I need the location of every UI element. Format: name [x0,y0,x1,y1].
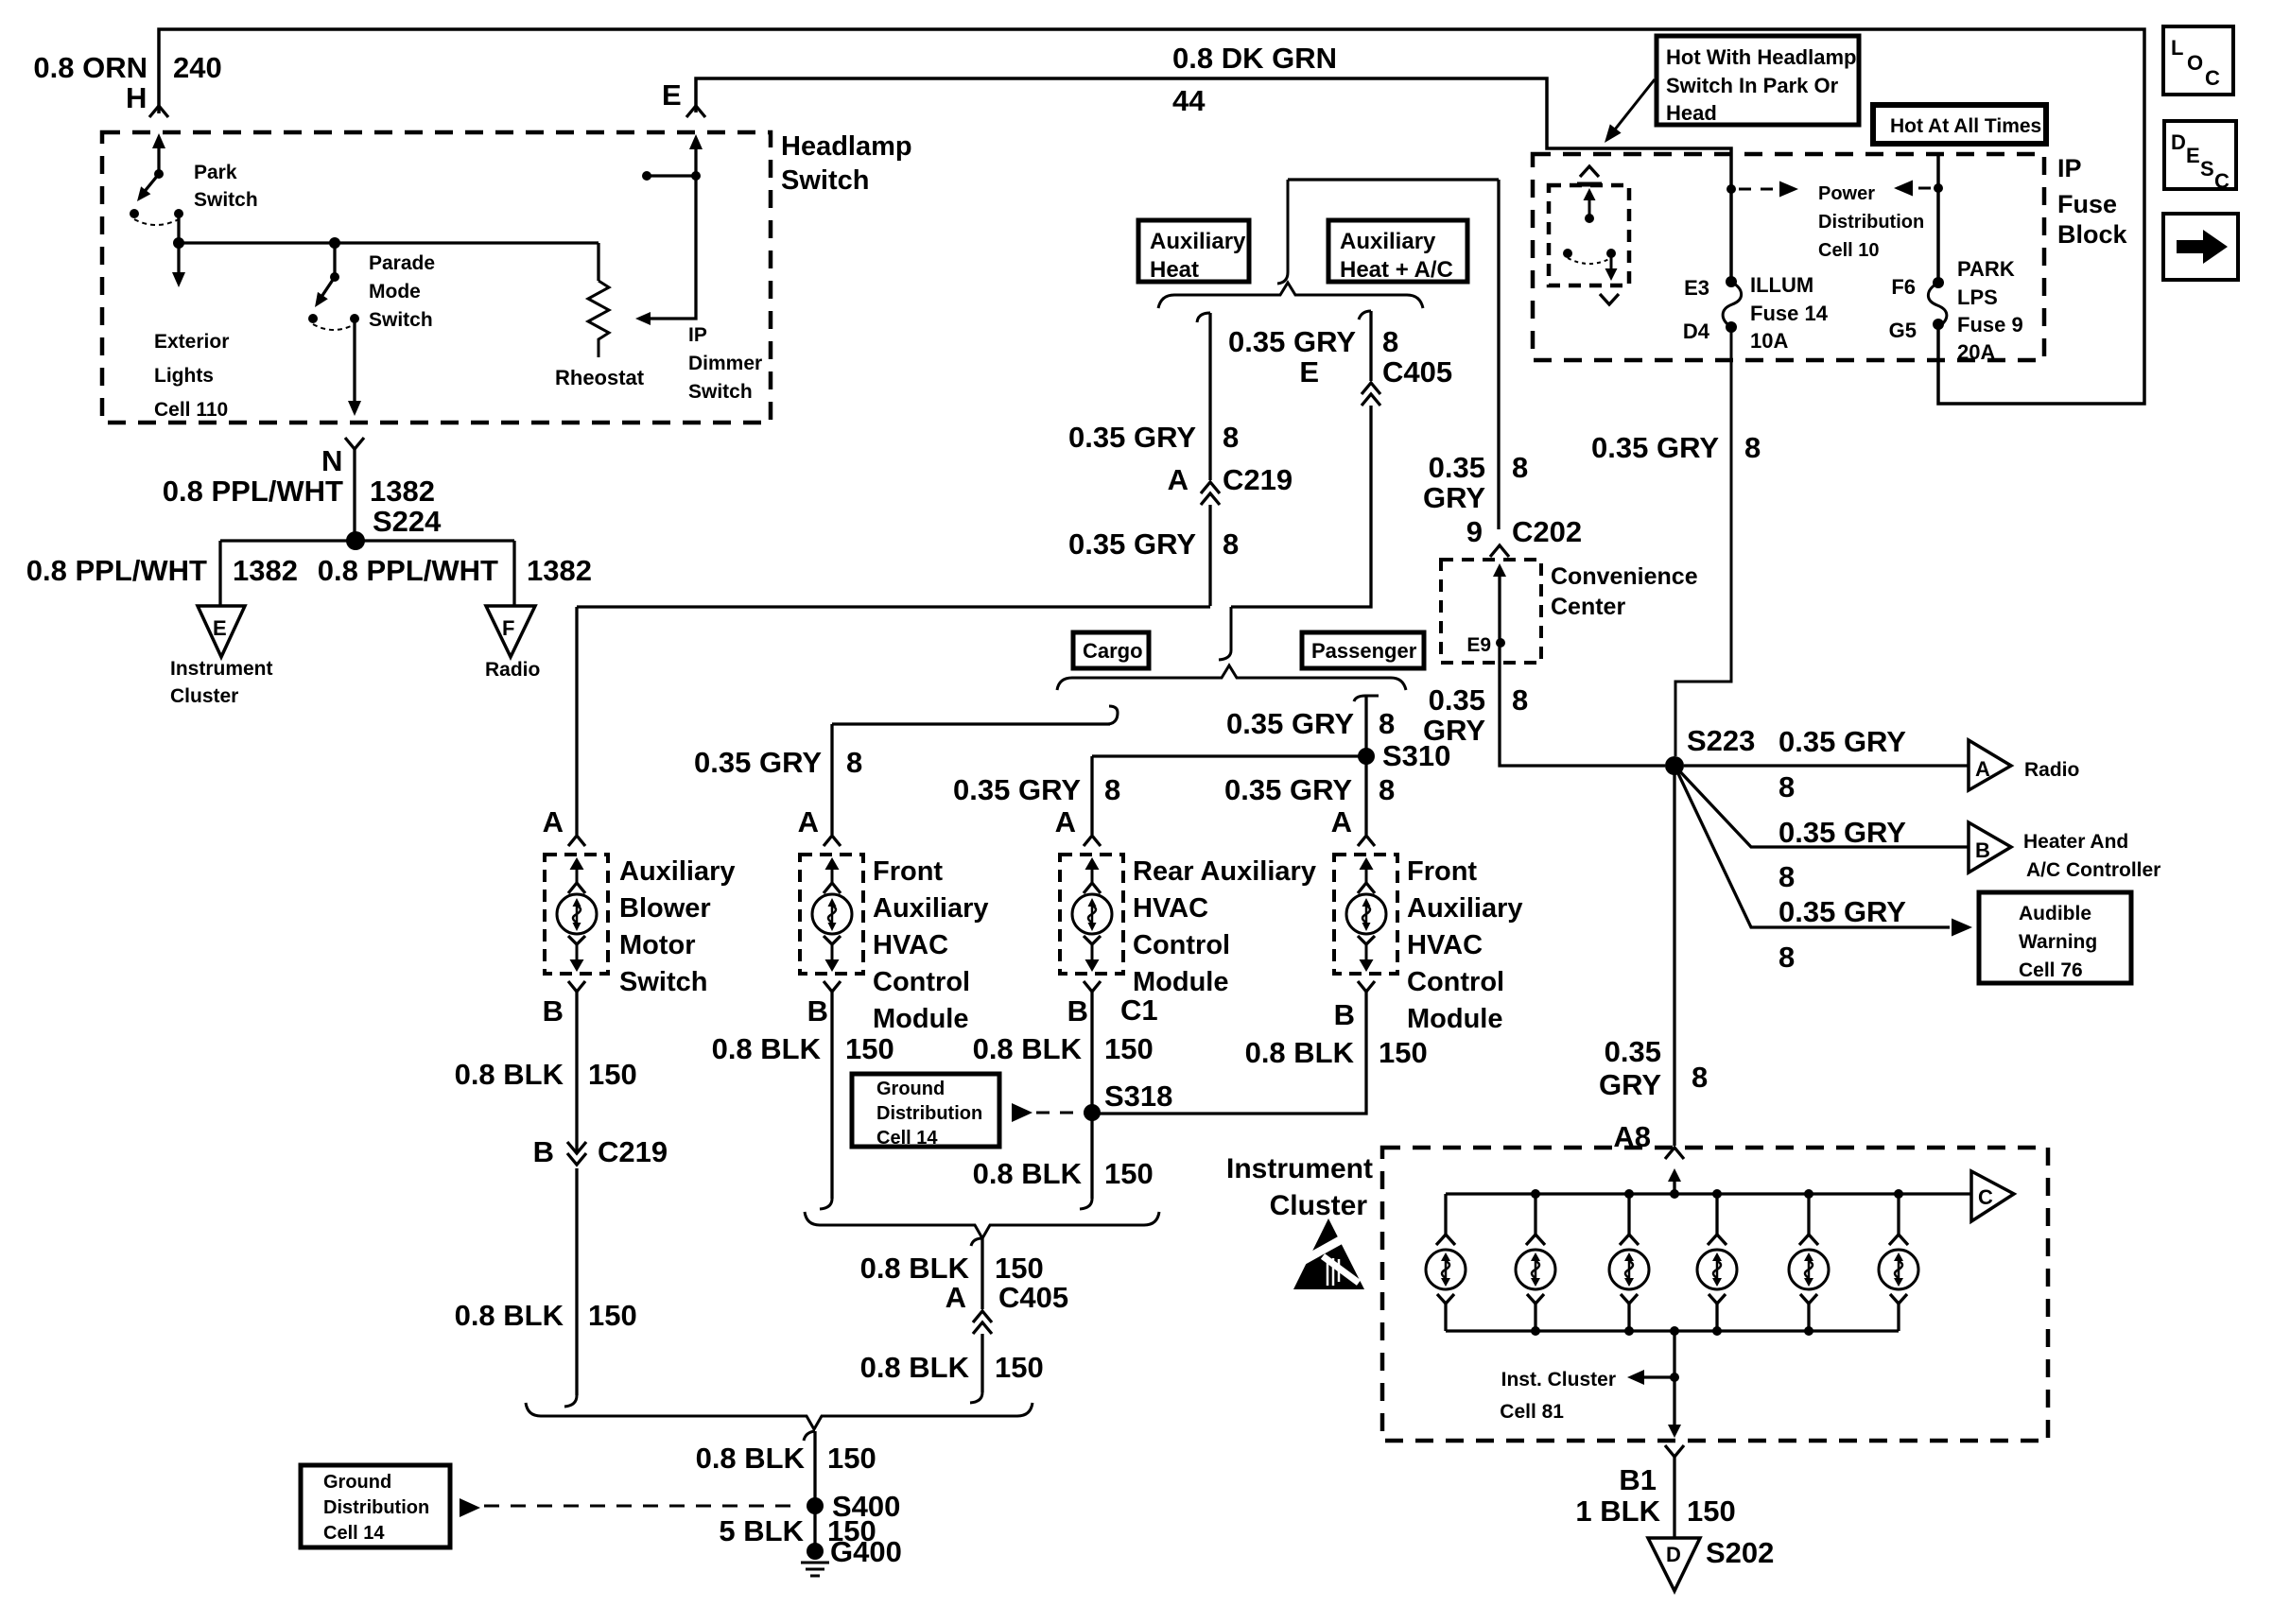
off-page connector C [1971,1171,2014,1221]
switch down arrow [1605,268,1618,281]
switch down chevron [1600,294,1619,304]
wire module4 B to S318 [1092,992,1366,1114]
svg-text:O: O [2187,51,2203,75]
connector B chevron x=1155 [1084,981,1101,992]
svg-text:Ground: Ground [876,1079,945,1099]
svg-text:Convenience: Convenience [1551,563,1698,590]
svg-text:F6: F6 [1891,275,1916,299]
connector half at N [345,438,364,449]
svg-text:Ground: Ground [323,1472,391,1493]
wire below C219 [1208,505,1211,606]
parade switch blade [320,277,335,300]
svg-text:Hot With Headlamp: Hot With Headlamp [1666,45,1856,69]
dashed from F6 (right) [1897,187,1931,190]
wire end curl module2 [820,1199,832,1209]
svg-text:C202: C202 [1512,515,1582,548]
svg-text:150: 150 [588,1299,637,1332]
cluster top bus [1446,1192,1971,1195]
parade contact left [308,314,318,323]
connector B1 symbol [1665,1445,1684,1457]
arrow to S400 [460,1498,480,1517]
off-page connector A to Radio [1969,740,2011,790]
svg-text:1382: 1382 [370,475,435,508]
svg-text:C: C [2205,66,2220,90]
park switch blade arrowhead [137,186,150,201]
svg-text:C: C [2214,169,2230,193]
svg-text:8: 8 [846,746,862,779]
svg-text:Fuse 9: Fuse 9 [1957,313,2023,337]
svg-text:Audible: Audible [2019,903,2091,924]
wire S310 left [1092,754,1366,757]
off-page connector B to Heater And A/C Controller [1969,822,2011,872]
switch travel arc [1568,258,1611,264]
svg-text:Module: Module [873,1004,969,1034]
arrow at cluster exit [1668,1425,1681,1438]
svg-text:20A: 20A [1957,340,1995,364]
fuse terminal F6 [1933,277,1944,288]
svg-text:Headlamp: Headlamp [781,131,912,162]
svg-text:A: A [1168,463,1189,496]
svg-text:B: B [1067,994,1088,1028]
svg-text:Fuse 14: Fuse 14 [1750,302,1829,325]
svg-text:0.35 GRY: 0.35 GRY [1068,421,1196,454]
switch up arrow [1584,188,1596,200]
svg-text:10A: 10A [1750,329,1788,353]
connector C202 symbol [1490,545,1509,557]
connector half at E [686,106,705,117]
svg-text:Control: Control [873,967,970,997]
svg-text:Control: Control [1407,967,1504,997]
svg-text:1382: 1382 [233,554,298,587]
Convenience Center dashed box [1441,560,1541,663]
svg-text:Switch In Park Or: Switch In Park Or [1666,74,1839,97]
splice S310 [1358,748,1375,765]
hook left brace wire [1197,313,1210,322]
connector half at H [149,106,168,117]
svg-text:0.35 GRY: 0.35 GRY [1068,527,1196,561]
svg-text:IP: IP [688,324,707,346]
svg-text:Parade: Parade [369,252,435,274]
svg-text:8: 8 [1379,773,1395,806]
wire S224 horizontal [220,539,514,542]
switch down arrow stem [1610,255,1613,272]
next-page arrow box [2163,214,2238,280]
svg-text:0.8 PPL/WHT: 0.8 PPL/WHT [318,554,498,587]
svg-text:0.35 GRY: 0.35 GRY [953,773,1081,806]
off-page connector E to Instrument Cluster [198,606,245,657]
bus dot bottom x=1624 [1531,1326,1540,1336]
svg-text:0.35 GRY: 0.35 GRY [1224,773,1352,806]
svg-text:150: 150 [1104,1157,1154,1190]
junction parade switch tap [329,237,340,249]
wire 0.35 GRY to C405-E [1369,311,1372,381]
svg-text:5 BLK: 5 BLK [719,1514,804,1547]
svg-text:0.8 PPL/WHT: 0.8 PPL/WHT [163,475,343,508]
switch contact right (head) [1606,249,1616,258]
svg-text:S223: S223 [1687,724,1755,757]
svg-text:0.8 BLK: 0.8 BLK [973,1157,1083,1190]
A8 stub wire [1673,1177,1675,1194]
wire C405 down to cargo link [1231,406,1371,607]
svg-text:A: A [1055,805,1076,838]
svg-text:0.35 GRY: 0.35 GRY [1778,725,1906,758]
svg-text:8: 8 [1382,325,1398,358]
svg-text:Auxiliary: Auxiliary [1407,893,1523,924]
arrow into Power Distribution [1779,181,1798,198]
switch top bar [1577,182,1602,187]
svg-text:E: E [662,78,682,112]
svg-text:8: 8 [1223,527,1239,561]
svg-text:8: 8 [1512,451,1528,484]
svg-text:Cell 10: Cell 10 [1818,240,1879,261]
arrow at N exit [348,401,361,416]
park switch pivot [154,169,164,179]
wire module2 B down [830,992,833,1199]
svg-text:Auxiliary: Auxiliary [619,856,736,887]
svg-text:F: F [502,616,514,640]
switch contact left (park) [1563,249,1572,258]
parade contact right [350,314,359,323]
svg-text:Module: Module [1407,1004,1503,1034]
svg-text:N: N [321,444,342,477]
wire cargo link horizontal [832,722,1110,725]
wire S223 down to A8 [1673,766,1675,1146]
svg-text:Cluster: Cluster [1270,1190,1368,1221]
fuse terminal G5 [1933,319,1944,330]
leader arrowhead [1605,124,1622,143]
wire module1 B down [575,992,578,1153]
wire B1 to S202 [1673,1457,1675,1538]
connector A chevron x=610 [568,836,585,846]
svg-text:Front: Front [873,856,943,887]
off-page connector F to Radio [486,606,535,657]
arrow to S318 [1012,1103,1032,1122]
wire S223 to Heater B [1674,766,1969,847]
IP fuse block dashed box [1533,154,2044,360]
svg-text:Dimmer: Dimmer [688,353,762,374]
svg-text:GRY: GRY [1599,1068,1661,1101]
wire to rheostat [597,243,599,281]
next-page arrow glyph [2177,230,2228,264]
svg-text:9: 9 [1466,515,1483,548]
wire passenger hook to S310 [1364,696,1367,756]
svg-text:0.35 GRY: 0.35 GRY [1591,431,1719,464]
svg-text:150: 150 [588,1058,637,1091]
svg-text:D: D [2171,130,2186,154]
svg-text:H: H [126,81,147,114]
wire park contact down [177,214,180,243]
svg-text:Switch: Switch [688,381,753,403]
svg-text:C219: C219 [598,1135,668,1168]
svg-text:Front: Front [1407,856,1477,887]
wire to parade pivot [333,243,336,277]
wire 0.35 GRY from D4 to S223 [1675,327,1731,756]
svg-text:8: 8 [1744,431,1761,464]
svg-text:A: A [798,805,819,838]
hook passenger side [1354,696,1379,701]
connector B chevron x=1445 [1358,981,1375,992]
bus dot bottom x=1816 [1712,1326,1722,1336]
svg-text:E: E [213,616,227,640]
svg-text:0.35: 0.35 [1429,683,1485,717]
parade switch pivot [330,272,339,282]
arrow into Audible Warning box [1952,919,1972,937]
arrow into Power Distribution from right [1894,181,1913,197]
connector C219 lower symbol [567,1153,586,1165]
bus dot top x=1723 [1624,1189,1634,1199]
svg-text:A/C Controller: A/C Controller [2026,859,2160,881]
svg-text:Rear Auxiliary: Rear Auxiliary [1133,856,1316,887]
splice S400 [807,1497,824,1514]
svg-text:0.35 GRY: 0.35 GRY [1226,707,1354,740]
park switch contact right [174,209,183,218]
Passenger label box [1302,632,1424,668]
svg-text:8: 8 [1512,683,1528,717]
svg-text:Instrument: Instrument [1226,1153,1373,1184]
wire N to S224 [353,449,356,541]
wire end curl below C405-A [970,1392,982,1403]
parade blade arrowhead [315,292,328,307]
brace to S400 [526,1403,1032,1429]
svg-text:Radio: Radio [2024,759,2079,781]
svg-text:E9: E9 [1466,634,1491,656]
headlamp switch position dashed box [1549,185,1629,285]
svg-text:240: 240 [173,51,222,84]
wire drop to C202 [1497,180,1500,529]
wire to F triangle [512,541,515,606]
bus dot bottom x=1771 [1670,1326,1679,1336]
svg-text:B: B [807,994,828,1028]
svg-text:0.8 BLK: 0.8 BLK [860,1351,970,1384]
svg-text:D4: D4 [1683,320,1710,343]
tap dot on F6 wire [1934,183,1943,193]
ESD sensitive device symbol [1293,1218,1364,1289]
wire through E9 to S223 [1500,573,1665,766]
svg-text:Cell 76: Cell 76 [2019,959,2083,981]
wire S310 down to module4 A [1364,756,1367,835]
connector B chevron x=610 [568,981,585,992]
connector A chevron x=1155 [1084,836,1101,846]
svg-text:B: B [543,994,564,1028]
connector B chevron x=880 [824,981,841,992]
splice S318 [1084,1104,1101,1121]
svg-text:0.8 BLK: 0.8 BLK [696,1442,806,1475]
brace under Auxiliary Heat boxes [1158,283,1423,308]
connector C405 symbol [1362,383,1380,394]
svg-text:D: D [1666,1543,1681,1566]
bus dot top x=1771 [1670,1189,1679,1199]
svg-text:150: 150 [1687,1494,1736,1528]
svg-text:S318: S318 [1104,1080,1172,1113]
bus dot top x=1816 [1712,1189,1722,1199]
bus dot bottom x=1913 [1804,1326,1813,1336]
svg-text:150: 150 [995,1252,1044,1285]
svg-text:S202: S202 [1706,1536,1774,1569]
rear auxiliary HVAC control module lamp [1060,855,1123,974]
bus dot top x=2008 [1894,1189,1903,1199]
wire down to front aux HVAC A [830,724,833,835]
svg-text:8: 8 [1104,773,1120,806]
wire module3 B down through S318 [1090,992,1093,1199]
connector A8 symbol [1665,1148,1684,1159]
switch up arrow stem [1588,197,1591,216]
wire S223 to Audible Warning [1674,766,1950,927]
cluster ground wire down [1673,1331,1675,1433]
svg-text:Rheostat: Rheostat [555,366,645,389]
fuse PARK LPS element [1928,283,1947,327]
wire end hook above cargo brace [1219,607,1231,660]
svg-text:0.8 BLK: 0.8 BLK [1245,1036,1355,1069]
wire to exterior lights [177,243,180,280]
Ground Distribution Cell 14 box lower [301,1465,450,1547]
svg-text:Passenger: Passenger [1311,639,1417,663]
brace under Cargo/Passenger [1057,665,1406,690]
wire brace to G400 [813,1431,816,1551]
Audible Warning Cell 76 box [1979,892,2131,983]
IP dimmer wiper wire [641,145,696,319]
svg-text:150: 150 [827,1442,876,1475]
dimmer junction dot [691,171,701,181]
svg-text:0.35: 0.35 [1605,1035,1661,1068]
wire parade to N [353,319,356,406]
svg-text:A: A [1331,805,1352,838]
svg-text:S: S [2200,157,2214,181]
wire brace to C405-A [980,1238,983,1309]
svg-text:Cargo: Cargo [1083,639,1143,663]
arrow from A8 into cluster [1668,1168,1681,1182]
svg-text:C: C [1978,1185,1993,1209]
svg-text:GRY: GRY [1423,481,1485,514]
svg-text:G400: G400 [830,1535,902,1568]
svg-text:Fuse: Fuse [2057,190,2117,218]
svg-text:8: 8 [1223,421,1239,454]
svg-text:A: A [946,1281,966,1314]
svg-text:HVAC: HVAC [1133,893,1208,924]
dashed link to S318 [1036,1112,1085,1114]
svg-text:0.8 BLK: 0.8 BLK [973,1032,1083,1065]
svg-text:Switch: Switch [194,189,258,211]
svg-text:E: E [2186,144,2200,167]
svg-text:150: 150 [1379,1036,1428,1069]
brace gathering module grounds [805,1212,1159,1238]
dimmer stub [647,174,696,177]
inst cluster tap stub [1633,1375,1674,1378]
Instrument Cluster dashed box [1382,1148,2048,1441]
parade switch travel arc [313,324,355,330]
svg-text:Switch: Switch [619,967,707,997]
svg-text:HVAC: HVAC [1407,930,1483,960]
wire to parade switch and rheostat [179,241,599,244]
svg-text:Hot At All Times: Hot At All Times [1890,115,2041,137]
connector C219 symbol [1201,482,1220,493]
inst cluster tap dot [1670,1373,1679,1382]
svg-text:Center: Center [1551,594,1625,620]
front auxiliary HVAC control module lamp [800,855,863,974]
svg-text:Heat + A/C: Heat + A/C [1340,257,1453,283]
svg-text:Switch: Switch [369,309,433,331]
svg-text:C219: C219 [1223,463,1293,496]
Auxiliary Heat + A/C label box [1328,220,1467,282]
arrow inside convenience center [1493,563,1506,577]
svg-text:0.8 PPL/WHT: 0.8 PPL/WHT [26,554,207,587]
svg-text:Cell 81: Cell 81 [1500,1401,1564,1423]
leader from hot-with box [1611,79,1655,134]
svg-text:Heat: Heat [1150,257,1199,283]
svg-text:150: 150 [1104,1032,1154,1065]
svg-text:150: 150 [845,1032,894,1065]
switch up chevron [1580,166,1599,177]
svg-text:PARK: PARK [1957,257,2015,281]
svg-text:8: 8 [1692,1061,1708,1094]
dimmer stub dot [642,171,651,181]
Cargo label box [1073,632,1149,668]
Hot With Headlamp Switch In Park Or Head box [1657,36,1859,125]
auxiliary blower motor switch (illumination lamp) [545,855,608,974]
svg-text:ILLUM: ILLUM [1750,273,1813,297]
arrow into box at E [689,134,703,149]
svg-text:Control: Control [1133,930,1230,960]
wire H arrow stem [157,144,160,174]
svg-text:Radio: Radio [485,659,540,681]
connector A chevron x=1445 [1358,836,1375,846]
svg-text:8: 8 [1778,770,1795,803]
svg-text:Distribution: Distribution [876,1103,982,1124]
Hot At All Times box [1873,105,2046,144]
svg-text:Exterior: Exterior [154,331,229,353]
park switch contact left [130,209,139,218]
svg-text:Cell 14: Cell 14 [876,1128,938,1149]
svg-text:GRY: GRY [1423,714,1485,747]
bus dot top x=1624 [1531,1189,1540,1199]
tap dot on E3 wire [1726,184,1736,194]
svg-text:Cell 14: Cell 14 [323,1523,385,1544]
svg-text:Distribution: Distribution [1818,212,1924,233]
svg-text:0.8 BLK: 0.8 BLK [455,1058,564,1091]
svg-text:0.35: 0.35 [1429,451,1485,484]
svg-text:Lights: Lights [154,365,214,387]
svg-text:IP: IP [2057,154,2082,182]
ground G400 dot [807,1543,824,1560]
wire module1 below C219 [575,1168,578,1395]
arrow to exterior lights [172,272,185,287]
svg-text:B1: B1 [1619,1463,1657,1496]
arrow into box at H [152,133,165,148]
cluster bottom bus [1446,1329,1899,1332]
svg-text:Power: Power [1818,183,1875,204]
front auxiliary HVAC control module lamp (right) [1334,855,1397,974]
headlamp switch dashed box [102,132,771,423]
svg-text:0.8 ORN: 0.8 ORN [33,51,147,84]
svg-text:Block: Block [2057,220,2128,249]
dashed link to S400 [484,1505,799,1508]
svg-text:Auxiliary: Auxiliary [1340,229,1436,254]
ground symbol G400 [801,1562,829,1564]
cluster illumination lamps [1426,1194,1466,1331]
svg-text:E3: E3 [1684,276,1709,300]
svg-text:C1: C1 [1120,993,1158,1027]
svg-text:8: 8 [1778,860,1795,893]
svg-text:S224: S224 [373,505,442,538]
svg-text:0.35 GRY: 0.35 GRY [1778,895,1906,928]
svg-text:Inst. Cluster: Inst. Cluster [1501,1369,1616,1391]
svg-text:8: 8 [1778,941,1795,974]
switch arm dot [1585,214,1594,223]
svg-text:G5: G5 [1889,319,1917,342]
svg-text:Auxiliary: Auxiliary [873,893,989,924]
Auxiliary Heat label box [1138,220,1249,282]
wire top link to C202 drop [1288,178,1499,181]
bus dot top x=1913 [1804,1189,1813,1199]
